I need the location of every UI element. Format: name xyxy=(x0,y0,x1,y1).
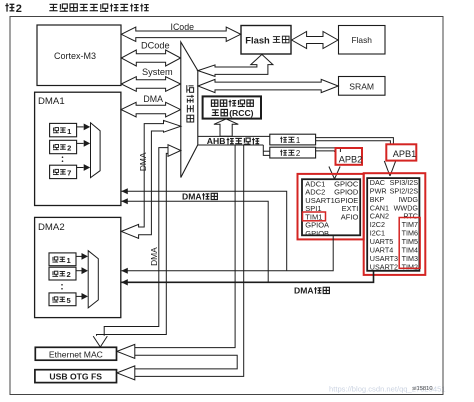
bus arrow DMA xyxy=(121,102,181,117)
figure number si15810 xyxy=(412,386,432,392)
svg-text:DMA: DMA xyxy=(138,152,148,171)
APB2 peripheral box xyxy=(302,179,360,235)
svg-text:DMA2: DMA2 xyxy=(38,222,65,233)
label ICode xyxy=(171,22,195,32)
APB2 peripheral list xyxy=(305,179,359,238)
svg-text:2: 2 xyxy=(67,270,71,279)
block 桥接1 xyxy=(270,134,316,145)
DMA request line 1 into DMA1 xyxy=(121,188,286,270)
bus arrow ICode xyxy=(121,27,240,41)
DMA1 mux funnel xyxy=(91,123,101,178)
svg-text:Flash: Flash xyxy=(245,34,270,45)
block SRAM xyxy=(339,77,386,96)
DMA2 channel arrow xyxy=(76,253,88,260)
svg-text:Cortex-M3: Cortex-M3 xyxy=(54,51,96,61)
bus matrix vertical label 总线矩阵 xyxy=(187,85,194,122)
block Flash xyxy=(339,26,386,55)
wire APB2 box to DMA2 request xyxy=(121,235,333,273)
wire 桥接2 to APB2 xyxy=(316,148,341,152)
bus matrix 总线矩阵 xyxy=(181,42,198,178)
APB1 outer red box xyxy=(364,173,426,275)
DMA1 channel box 通道7 xyxy=(50,165,77,178)
arrow Flash接口 to Flash xyxy=(292,32,338,49)
arrow bus matrix to Ethernet MAC head xyxy=(168,145,181,157)
arrow bus matrix to Flash接口 xyxy=(198,54,273,76)
DMA2 channel box 通道2 xyxy=(49,267,76,280)
APB2 outer red box xyxy=(298,174,364,240)
wire APB1 box to DMA2 request xyxy=(121,271,373,286)
AHB bus stub to bridge2 xyxy=(263,145,270,155)
watermark xyxy=(329,385,446,394)
label box APB2 xyxy=(336,148,363,165)
label box APB1 xyxy=(386,144,416,160)
title text 互联型产品的系统结构 xyxy=(49,4,148,12)
arrow bus matrix to DMA2 xyxy=(121,120,181,238)
vertical label DMA (ethernet path) xyxy=(149,247,159,266)
svg-text:1: 1 xyxy=(296,136,300,145)
APB1 peripheral box xyxy=(367,178,419,271)
arrow B channel xyxy=(97,148,169,336)
DMA2 channel arrow xyxy=(76,293,88,300)
svg-text:TIM2: TIM2 xyxy=(402,262,418,271)
wire 桥接1 to APB1 xyxy=(316,138,394,145)
wire V2 USB channel to AHB xyxy=(135,145,244,376)
block DMA1 xyxy=(35,92,121,205)
label DMA请求 lower xyxy=(294,286,329,296)
APB1 V arrowhead xyxy=(384,161,395,176)
APB1 peripheral list xyxy=(370,178,419,271)
svg-text:(RCC): (RCC) xyxy=(229,108,253,118)
AHB bus bottom line xyxy=(198,144,263,146)
svg-text:System: System xyxy=(142,67,173,77)
red box around TIM1 xyxy=(303,212,326,221)
AHB bus top line xyxy=(198,135,270,137)
svg-text:AHB: AHB xyxy=(207,136,226,146)
svg-text:APB1: APB1 xyxy=(393,149,417,159)
svg-text:si15810: si15810 xyxy=(412,386,432,392)
block DMA2 xyxy=(35,217,121,317)
svg-text:SRAM: SRAM xyxy=(349,81,374,91)
DMA2 channel box 通道1 xyxy=(49,253,76,266)
svg-text:DMA: DMA xyxy=(149,247,159,266)
svg-text:DMA: DMA xyxy=(294,286,314,296)
svg-text:DCode: DCode xyxy=(141,41,170,51)
Ethernet-USB nested channel wall xyxy=(135,355,237,369)
red box around TIM7-TIM2 xyxy=(399,218,420,269)
svg-text:DMA: DMA xyxy=(143,94,163,104)
label AHB系统总线 xyxy=(207,136,259,146)
APB2 V arrowhead xyxy=(329,167,340,179)
DMA2 mux funnel xyxy=(88,251,98,308)
label DMA请求 upper xyxy=(182,192,217,202)
arrow AHB bus to RCC xyxy=(214,119,238,136)
DMA2 channel dots xyxy=(61,284,63,290)
wire V1 AHB to Ethernet channel xyxy=(135,145,235,348)
DMA2 channel arrow xyxy=(76,267,88,274)
block USB OTG FS xyxy=(35,370,117,383)
Ethernet MAC hollow arrowhead xyxy=(117,344,135,358)
DMA request line 2 into DMA1 xyxy=(121,198,268,282)
DMA1 channel arrow xyxy=(77,140,91,147)
svg-text:AFIO: AFIO xyxy=(341,212,359,221)
block Ethernet MAC xyxy=(35,347,116,360)
bus arrow System xyxy=(121,77,180,92)
title figure label 图2 xyxy=(5,3,22,15)
V arrowhead into Ethernet MAC xyxy=(93,336,107,347)
svg-text:ICode: ICode xyxy=(171,22,195,32)
svg-text:2: 2 xyxy=(67,144,71,153)
arrow bus matrix to SRAM xyxy=(198,79,338,92)
block Flash接口 xyxy=(241,26,291,55)
vertical label DMA (matrix-DMA2 path) xyxy=(138,152,148,171)
label DCode xyxy=(141,41,170,51)
label System xyxy=(142,67,173,77)
DMA1 channel box 通道1 xyxy=(50,123,77,136)
svg-text:APB2: APB2 xyxy=(339,154,363,164)
DMA2 channel box 通道5 xyxy=(49,293,76,306)
block Cortex-M3 xyxy=(37,25,121,86)
svg-text:2: 2 xyxy=(296,149,300,158)
DMA1 channel arrow xyxy=(77,124,91,131)
block 桥接2 xyxy=(270,147,316,158)
svg-text:Flash: Flash xyxy=(351,35,372,45)
svg-text:Ethernet MAC: Ethernet MAC xyxy=(49,349,103,359)
DMA1 channel arrow xyxy=(77,164,91,171)
svg-text:GPIOB: GPIOB xyxy=(305,229,329,238)
block 复位和时钟控制(RCC) xyxy=(203,96,261,118)
USB OTG FS hollow arrowhead xyxy=(117,366,135,380)
DMA1 channel box 通道2 xyxy=(50,140,77,153)
label DMA xyxy=(143,94,163,104)
DMA1 channel dots xyxy=(62,156,64,162)
svg-text:DMA: DMA xyxy=(182,192,202,202)
svg-text:USART2: USART2 xyxy=(370,262,398,271)
svg-text:2: 2 xyxy=(16,3,22,15)
svg-text:USB OTG FS: USB OTG FS xyxy=(49,372,102,382)
svg-text:7: 7 xyxy=(67,169,71,178)
svg-text:DMA1: DMA1 xyxy=(38,96,65,107)
bus arrow DCode xyxy=(121,50,180,66)
